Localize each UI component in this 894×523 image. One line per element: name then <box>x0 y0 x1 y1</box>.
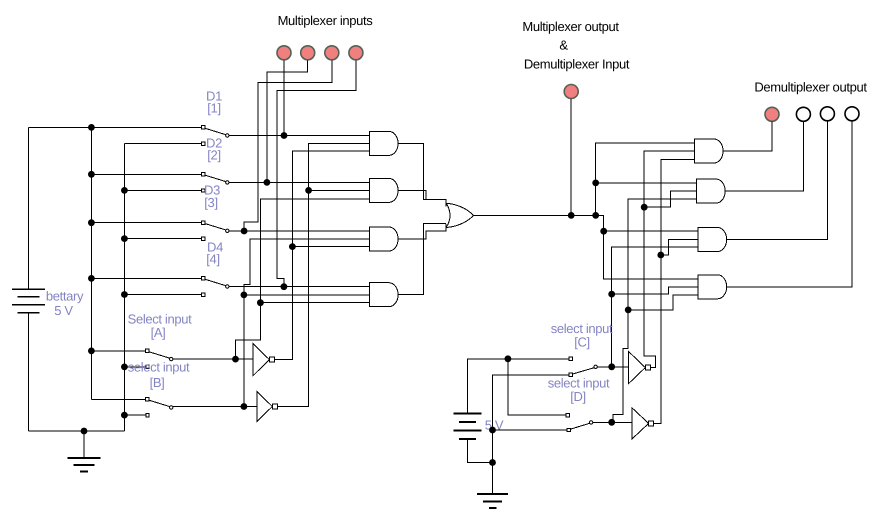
junction data to AND-C.in1 <box>600 228 607 235</box>
terminal demux output 4 (open) <box>845 107 859 121</box>
switch S4 (D4) arm <box>205 279 226 286</box>
wire input2 jog to D2 row <box>267 60 308 182</box>
switch S6 (select B) pivot contact <box>146 398 149 401</box>
svg-text:[D]: [D] <box>570 389 586 404</box>
switch S6 NC stub contact <box>146 413 149 416</box>
wire select B riser <box>244 239 370 407</box>
wire AND3 output to OR <box>399 224 447 239</box>
switch S1 (D1) NC stub contact <box>202 142 205 145</box>
wire AND1 output to OR <box>399 143 447 206</box>
wire NOT-A output riser <box>274 151 369 359</box>
battery B2 (5 V) <box>453 413 481 415</box>
wire battery+ up to D-row bus <box>28 127 30 289</box>
junction rail1/selA <box>88 348 95 355</box>
switch S5 (select A) arm <box>149 352 170 359</box>
switch S7 arm <box>572 368 594 375</box>
terminal multiplexer output (pink) <box>564 85 578 99</box>
svg-text:[B]: [B] <box>150 375 165 390</box>
switch S2 (D2) arm end <box>226 181 229 184</box>
inverter U6 (NOT B) <box>257 392 272 422</box>
wire A to AND4.in3 <box>260 302 369 304</box>
wire data drop to lower gates <box>596 215 699 278</box>
switch S3 (D3) NC stub contact <box>202 237 205 240</box>
switch S3 (D3) arm end <box>226 229 229 232</box>
wire rail-2 (switch NC stubs) <box>123 144 125 431</box>
wire select C riser <box>612 247 699 367</box>
svg-text:Demultiplexer output: Demultiplexer output <box>754 80 867 95</box>
junction rail2/selA stub <box>121 364 128 371</box>
wire AND4 output to OR <box>399 224 447 295</box>
svg-text:&: & <box>559 38 568 53</box>
wire select B to NOT-B input <box>173 406 257 408</box>
svg-text:5 V: 5 V <box>54 303 73 318</box>
wire D3 data row to AND3.in1 <box>229 230 370 232</box>
junction rail1/D2 <box>88 171 95 178</box>
or-gate U7 (mux output OR) <box>446 203 473 227</box>
and-gate U11 (demux out 4) <box>698 275 727 299</box>
junction NOT-B to AND2.in2 <box>305 187 312 194</box>
and-gate U4 (D4) <box>370 283 399 307</box>
junction input3/D3 row <box>241 228 248 235</box>
and-gate U10 (demux out 3) <box>698 228 727 252</box>
switch S1 (D1) arm end <box>226 134 229 137</box>
switch S2 (D2) pivot contact <box>202 173 205 176</box>
wire D4 data row to AND4.in1 <box>229 286 370 288</box>
wire data to AND-B.in1 <box>596 182 697 184</box>
svg-text:[A]: [A] <box>151 325 166 340</box>
ground GND2 <box>492 463 494 495</box>
junction rail1/D4 <box>88 275 95 282</box>
wire AND-B output to terminal 2 <box>726 122 804 192</box>
terminal multiplexer input 2 (pink) <box>301 46 315 60</box>
switch S4 (D4) NC stub contact <box>202 293 205 296</box>
switch S2 (D2) NC stub contact <box>202 189 205 192</box>
wire select A to NOT-A input <box>173 358 253 360</box>
junction input1/D1 row <box>281 132 288 139</box>
switch S1 (D1) arm <box>205 128 226 135</box>
ground GND1 <box>83 431 85 458</box>
junction NOT-C to AND-B.in2 <box>641 204 648 211</box>
wire rail2 to selB stub <box>124 414 147 416</box>
terminal multiplexer input 1 (pink) <box>277 46 291 60</box>
svg-text:[4]: [4] <box>206 252 219 267</box>
terminal demux output 1 (pink) <box>765 107 779 121</box>
battery B1 (bettary 5 V) <box>12 288 45 290</box>
junction ground tap <box>81 428 88 435</box>
junction terminal/data row <box>568 212 575 219</box>
wire battery- down to ground rail <box>28 313 30 431</box>
wire NOT-C to AND-B.in2 <box>644 191 697 207</box>
wire B to AND4.in2 <box>244 294 370 296</box>
junction battery-/ground2 <box>489 459 496 466</box>
wire rail2 to D1 stub <box>124 143 203 145</box>
wire input1 down to D1 row <box>283 60 285 135</box>
junction input4/D4 row <box>281 283 288 290</box>
switch S8 pivot contact <box>567 428 570 431</box>
wire ground riser to switch pivots <box>493 375 571 463</box>
wire rail1 to D3 switch <box>91 222 203 224</box>
junction +5V branch <box>505 355 512 362</box>
and-gate U2 (D2) <box>370 178 399 202</box>
switch S7 pivot contact <box>569 373 572 376</box>
junction select D node <box>608 419 615 426</box>
wire rail2 to D2 stub <box>124 189 203 191</box>
wire AND-D output to terminal 4 <box>727 121 852 287</box>
junction ground rail/select D <box>489 427 496 434</box>
wire D1 data row to AND1.in1 <box>229 135 370 137</box>
wire NOT-B to AND2.in2 <box>309 189 370 191</box>
wire rail1 to D4 switch <box>91 277 203 279</box>
wire data to AND-C.in1 <box>604 230 699 232</box>
junction data node <box>592 212 599 219</box>
svg-text:[1]: [1] <box>207 101 220 116</box>
and-gate U9 (demux out 2) <box>697 179 726 203</box>
switch S3 (D3) pivot contact <box>202 221 205 224</box>
svg-text:Multiplexer inputs: Multiplexer inputs <box>278 13 374 28</box>
switch S3 (D3) arm <box>205 224 226 231</box>
switch S7 (select C) NC stub contact <box>569 357 572 360</box>
junction NOT-A to AND3.in3 <box>289 243 296 250</box>
wire bottom ground rail <box>29 430 125 432</box>
switch S4 (D4) arm end <box>226 285 229 288</box>
junction NOT-D to AND-C.in2 <box>657 252 664 259</box>
wire +5V drop to select D stub <box>508 359 568 415</box>
wire battery2- down <box>467 439 492 463</box>
switch S8 (select D) NC stub contact <box>566 414 569 417</box>
wire NOT-C output riser <box>644 151 694 367</box>
wire OR output to demux data node <box>474 214 596 216</box>
switch S6 (select B) arm end <box>170 406 173 409</box>
wire AND-C output to terminal 3 <box>727 121 827 239</box>
wire +5V row to D1 switch <box>29 126 204 128</box>
wire select D riser <box>612 199 697 422</box>
switch S6 (select B) arm <box>149 400 170 407</box>
junction rail1/D1 <box>88 124 95 131</box>
wire S7 to NOT-C input <box>597 366 628 368</box>
wire input4 jog to D4 row <box>277 60 356 286</box>
junction rail2/D3 stub <box>121 235 128 242</box>
terminal multiplexer input 4 (pink) <box>349 46 363 60</box>
inverter U13 (NOT D) <box>632 408 649 439</box>
wire NOT-A to AND3.in3 <box>292 246 369 248</box>
junction rail2/D2 stub <box>121 187 128 194</box>
svg-text:Multiplexer output: Multiplexer output <box>522 19 619 34</box>
junction rail2/selB stub <box>121 412 128 419</box>
switch S5 (select A) pivot contact <box>146 349 149 352</box>
junction data to AND-B.in1 <box>592 180 599 187</box>
wire AND-A output to terminal 1 <box>724 122 772 151</box>
wire rail2 to D4 stub <box>124 294 203 296</box>
wire input3 jog to D3 row <box>244 60 332 231</box>
wire rail2 to selA stub <box>124 366 147 368</box>
junction B to AND4.in2 <box>241 292 248 299</box>
svg-text:[C]: [C] <box>574 335 590 350</box>
wire D2 data row to AND2.in1 <box>229 181 370 183</box>
junction C to AND-D.in2 <box>608 291 615 298</box>
svg-text:bettary: bettary <box>46 289 84 304</box>
junction select A node <box>232 356 239 363</box>
wire NOT-D output riser <box>654 160 695 424</box>
wire S8 to NOT-D input <box>593 421 632 423</box>
switch S2 (D2) arm <box>205 175 226 182</box>
junction A to AND4.in3 <box>257 299 264 306</box>
wire NOT-B output riser <box>277 143 369 406</box>
switch S8 arm end <box>589 421 592 424</box>
switch S5 (select A) arm end <box>170 357 173 360</box>
wire ground rail to select D pivot <box>493 429 569 431</box>
wire select A riser <box>236 199 370 359</box>
junction select B node <box>241 403 248 410</box>
wire rail-1 (switch commons) <box>90 127 92 399</box>
wire AND2 output to OR <box>399 190 426 199</box>
inverter U12 (NOT C) <box>629 351 646 383</box>
wire rail1 to select A switch <box>91 350 147 352</box>
wire output terminal stem <box>570 99 572 215</box>
and-gate U3 (D3) <box>370 227 399 251</box>
wire NOT-D to AND-C.in2 <box>661 240 698 256</box>
svg-text:[3]: [3] <box>204 195 217 210</box>
terminal multiplexer input 3 (pink) <box>325 46 339 60</box>
inverter U5 (NOT A) <box>253 344 269 376</box>
svg-text:Demultiplexer Input: Demultiplexer Input <box>524 57 630 72</box>
terminal demux output 3 (open) <box>820 107 834 121</box>
switch S1 (D1) pivot contact <box>202 126 205 129</box>
and-gate U8 (demux out 1) <box>695 139 724 163</box>
wire data riser up to AND-A.in1 <box>596 143 695 216</box>
svg-text:select input: select input <box>128 360 190 375</box>
switch S5 NC stub contact <box>146 365 149 368</box>
terminal demux output 2 (open) <box>796 107 810 121</box>
junction D to AND-D.in3 <box>625 307 632 314</box>
switch S4 (D4) pivot contact <box>202 277 205 280</box>
wire D to AND-D.in3 <box>628 295 698 310</box>
svg-text:[2]: [2] <box>207 148 220 163</box>
junction input2/D2 row <box>264 179 271 186</box>
junction rail1/D3 <box>88 219 95 226</box>
wire rail-1 turn to select B switch <box>91 398 147 400</box>
junction rail2/D4 stub <box>121 291 128 298</box>
wire battery2+ to select C stub row <box>467 359 571 414</box>
wire rail2 to D3 stub <box>124 238 203 240</box>
switch S7 arm end <box>594 365 597 368</box>
wire rail1 to D2 switch <box>91 173 203 175</box>
junction select C node <box>608 363 615 370</box>
wire C to AND-D.in2 <box>612 287 699 294</box>
switch S8 arm <box>570 423 590 429</box>
and-gate U1 (D1) <box>370 131 399 155</box>
